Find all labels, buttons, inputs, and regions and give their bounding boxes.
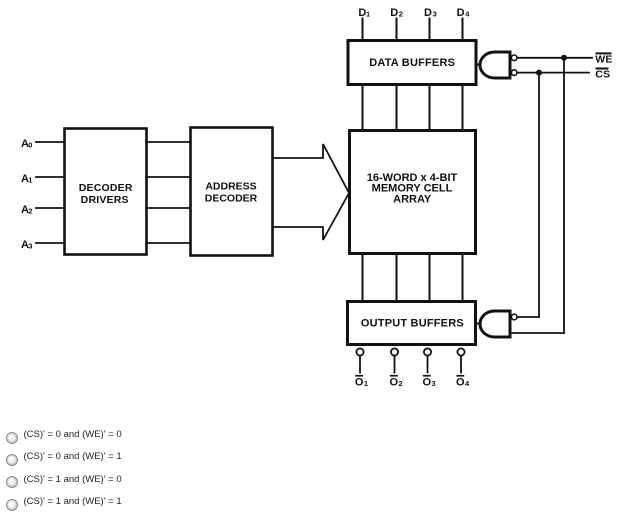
node D4: [457, 7, 471, 19]
net label WE: [595, 52, 612, 65]
svg-text:1: 1: [366, 9, 370, 18]
wire WE net: [510, 58, 592, 333]
svg-text:O: O: [390, 376, 399, 388]
node A3: [21, 239, 32, 251]
wire decoder to address line3: [146, 207, 190, 209]
svg-text:4: 4: [465, 379, 470, 388]
junction CS: [536, 70, 542, 76]
node A1: [21, 173, 32, 185]
svg-text:0: 0: [28, 141, 32, 150]
wire memory to output buffers bus2: [396, 254, 398, 301]
svg-text:D: D: [457, 7, 465, 19]
node D1: [358, 7, 370, 19]
block ADDRESS DECODER: [191, 128, 273, 256]
node O2: [390, 375, 403, 389]
answer option 1 text: [24, 430, 122, 440]
wire memory to output buffers bus1: [362, 254, 364, 301]
gate U2 output-enable NAND: [476, 311, 517, 337]
net label CS: [595, 68, 610, 81]
block OUTPUT BUFFERS: [348, 302, 476, 345]
node O3: [423, 375, 436, 389]
gate U1 write-enable NAND: [476, 52, 517, 78]
wire decoder to address line1: [146, 141, 190, 143]
wire A0 input: [36, 141, 64, 143]
answer option 4 radio: [6, 499, 18, 511]
block DECODER DRIVERS: [65, 129, 147, 255]
output bubble O4: [457, 348, 464, 372]
answer option 3 text: [24, 475, 122, 485]
wire D3 to data buffers: [429, 19, 431, 41]
wire A3 input: [36, 242, 64, 244]
answer option 1 radio: [6, 432, 18, 444]
answer option 3 radio: [6, 476, 18, 488]
svg-text:CS: CS: [595, 68, 610, 80]
node A0: [21, 138, 32, 150]
node A2: [21, 204, 32, 216]
svg-text:2: 2: [399, 379, 403, 388]
answer option 2 text: [24, 452, 122, 462]
svg-text:O: O: [456, 376, 465, 388]
wire A2 input: [36, 207, 64, 209]
wire D2 to data buffers: [396, 19, 398, 41]
wire decoder to address line2: [146, 176, 190, 178]
wire decoder to address line4: [146, 242, 190, 244]
wire data buffers to memory bus3: [429, 84, 431, 131]
wire data buffers to memory bus1: [362, 84, 364, 131]
junction WE: [561, 55, 567, 61]
svg-text:1: 1: [28, 176, 32, 185]
wire memory to output buffers bus3: [429, 254, 431, 301]
wire data buffers to memory bus4: [462, 84, 464, 131]
wire memory to output buffers bus4: [462, 254, 464, 301]
svg-text:DECODER: DECODER: [205, 193, 258, 205]
wire CS net: [517, 73, 589, 317]
svg-text:O: O: [423, 376, 432, 388]
svg-text:DATA BUFFERS: DATA BUFFERS: [369, 57, 455, 69]
output bubble O3: [424, 348, 431, 372]
svg-text:1: 1: [364, 379, 368, 388]
svg-text:2: 2: [28, 207, 32, 216]
wire data buffers to memory bus2: [396, 84, 398, 131]
svg-text:DRIVERS: DRIVERS: [81, 194, 129, 206]
svg-text:D: D: [390, 7, 398, 19]
output bubble O1: [356, 348, 363, 372]
wire D1 to data buffers: [362, 19, 364, 41]
svg-text:3: 3: [433, 9, 437, 18]
svg-text:O: O: [355, 376, 364, 388]
svg-text:OUTPUT BUFFERS: OUTPUT BUFFERS: [361, 318, 464, 330]
svg-text:WE: WE: [595, 54, 612, 66]
output bubble O2: [391, 348, 398, 372]
svg-text:3: 3: [28, 242, 32, 251]
wire D4 to data buffers: [462, 19, 464, 41]
svg-text:ARRAY: ARRAY: [393, 194, 432, 206]
svg-text:ADDRESS: ADDRESS: [205, 180, 256, 192]
block DATA BUFFERS: [348, 41, 476, 85]
svg-text:DECODER: DECODER: [79, 182, 133, 194]
node D3: [424, 7, 437, 19]
block MEMORY CELL ARRAY: [350, 131, 476, 254]
svg-text:4: 4: [465, 9, 470, 18]
answer option 4 text: [24, 497, 122, 507]
node D2: [390, 7, 403, 19]
wire A1 input: [36, 176, 64, 178]
node O1: [355, 375, 368, 389]
svg-text:D: D: [424, 7, 432, 19]
svg-text:2: 2: [399, 9, 403, 18]
svg-text:3: 3: [432, 379, 436, 388]
answer option 2 radio: [6, 454, 18, 466]
node O4: [456, 375, 470, 389]
block arrow address decoder to memory: [273, 144, 349, 240]
